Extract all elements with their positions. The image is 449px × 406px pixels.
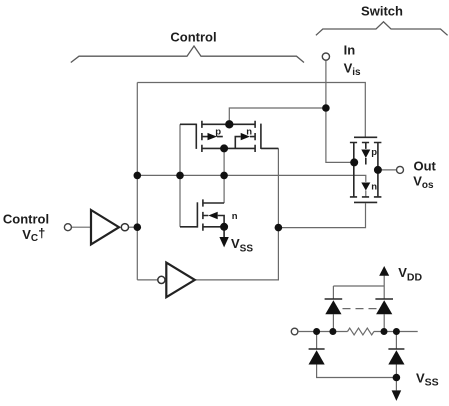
svg-text:p: p: [371, 147, 377, 158]
svg-text:Control: Control: [3, 211, 49, 226]
svg-text:n: n: [371, 182, 377, 193]
svg-text:p: p: [215, 126, 221, 137]
svg-text:Out: Out: [414, 159, 437, 174]
svg-text:Control: Control: [170, 30, 216, 45]
svg-text:n: n: [246, 126, 252, 137]
svg-text:n: n: [232, 211, 238, 222]
svg-text:Switch: Switch: [361, 4, 403, 19]
svg-text:In: In: [344, 42, 356, 57]
